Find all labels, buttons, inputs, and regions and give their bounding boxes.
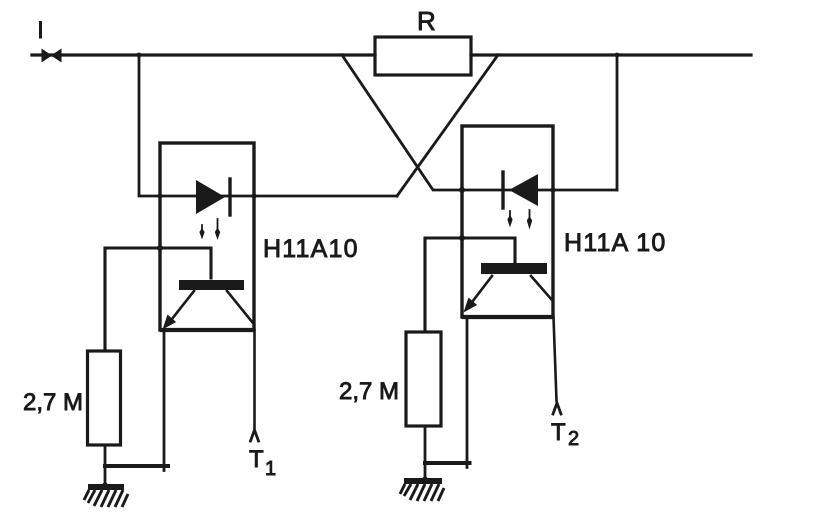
svg-text:H11A 10: H11A 10: [564, 229, 666, 257]
svg-text:2,7 M: 2,7 M: [339, 378, 399, 405]
svg-text:1: 1: [265, 458, 276, 480]
svg-text:2,7 M: 2,7 M: [23, 389, 83, 416]
svg-text:H11A10: H11A10: [263, 235, 359, 263]
svg-text:T: T: [249, 446, 264, 473]
svg-text:T: T: [551, 419, 566, 446]
svg-text:2: 2: [568, 428, 579, 450]
svg-text:R: R: [417, 6, 436, 36]
